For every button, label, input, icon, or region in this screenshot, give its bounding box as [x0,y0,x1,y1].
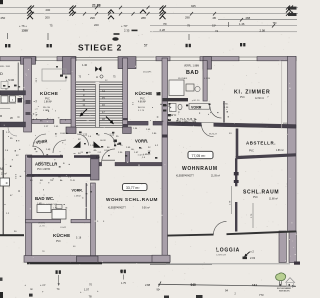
svg-text:8.5.8: 8.5.8 [14,174,16,180]
svg-text:m¹: m¹ [30,288,33,291]
svg-text:90¹: 90¹ [157,289,161,292]
svg-text:75: 75 [187,24,191,28]
svg-text:TB.: TB. [50,180,54,182]
stair treads [76,82,123,125]
vorr + kl.zimmer south wall (sloped) [168,122,297,128]
svg-text:D: D [0,71,3,76]
left black wall line y235 [0,234,24,236]
svg-text:W: W [10,116,13,120]
svg-text:288: 288 [246,16,251,20]
svg-text:KI. ZIMMER: KI. ZIMMER [234,90,271,96]
svg-text:1 M².: 1 M². [37,202,42,205]
svg-text:945: 945 [191,4,196,8]
stair arrow right [106,117,114,125]
corridor extra density [77,134,89,146]
svg-text:11.88 m²: 11.88 m² [269,198,278,201]
level pair left [56,270,58,274]
svg-text:-95-: -95- [93,150,97,152]
svg-text:PVC: PVC [249,151,254,153]
top-left kueche specks [60,75,63,77]
kueche upper-left bottom wall [32,119,54,123]
svg-text:94: 94 [225,289,228,293]
wall kueche/wohn lower-left [91,183,96,256]
right dimension line 5 [150,31,297,33]
corridor extra marks [46,128,159,157]
svg-text:1.86 m²: 1.86 m² [276,149,284,152]
stair tread numbers right flight [102,90,105,121]
kueche-mid bottom wall [128,121,149,125]
right dimension line 4 [150,25,297,27]
svg-text:. 44 .10: . 44 .10 [192,100,200,102]
tick marks row2 [28,12,294,16]
svg-text:78: 78 [89,295,93,298]
vorr mid [189,104,210,110]
svg-text:5T: 5T [144,44,148,48]
right arrow blobs [288,7,297,10]
kl zimmer [234,90,271,101]
stair right wall [123,58,128,128]
svg-text:L.0942: L.0942 [74,196,81,198]
corner artifacts [0,0,3,4]
stair left wall [71,58,76,128]
stair arrow left [80,109,87,116]
svg-text:298: 298 [185,16,190,20]
bad mid [178,66,210,81]
svg-text:PVC 1.98 M²: PVC 1.98 M² [37,168,50,171]
svg-text:23 m²: 23 m² [1,173,7,176]
abstellr-left bottom wall [27,174,91,177]
loggia door arc [214,221,227,234]
corridor door arc near stairs [104,134,115,145]
svg-text:250: 250 [1,16,6,20]
svg-text:1.40: 1.40 [82,63,88,67]
left boundary vline [2,130,4,235]
left apartment wall upper [24,58,32,132]
svg-text:1.46: 1.46 [239,22,245,26]
svg-text:AU.DH: AU.DH [138,106,145,109]
svg-text:C.97/0 LH: C.97/0 LH [216,255,226,257]
svg-text:PVC: PVC [140,98,145,100]
svg-text:LOGGIA: LOGGIA [216,248,240,254]
svg-text:2.8¹: 2.8¹ [98,151,102,154]
bad/kz divider wall [203,61,207,102]
stair top landing faint line [76,81,123,83]
svg-text:VERFL. 1.88M: VERFL. 1.88M [184,66,199,68]
stair well verticals [95,85,97,128]
svg-text:≠ 1.70: ≠ 1.70 [138,109,145,112]
svg-text:200: 200 [45,16,50,20]
vorr-mid specks [163,103,211,112]
dark dashes [132,30,138,32]
svg-text:AL.: AL. [60,179,64,182]
svg-text:2.03: 2.03 [250,256,256,260]
svg-text:PVC: PVC [45,98,50,100]
bottom exterior wall [24,256,170,263]
wohnraum [176,166,220,178]
svg-text:76¹: 76¹ [163,22,167,26]
kueche upper-left fixture [42,69,66,81]
level mark pairs y45 [5,43,245,47]
left edge wall y122 [0,122,26,127]
top exterior wall piers [0,57,36,61]
house [286,278,296,283]
svg-text:4.50M: 4.50M [204,78,210,80]
svg-text:+1.70: +1.70 [39,226,45,228]
svg-text:74: 74 [215,29,219,33]
entry door flags [73,141,81,148]
kl zimmer inner face line [281,61,283,129]
pier at vorr lower-left [91,155,100,180]
stair tread numbers left flight [82,89,85,107]
area box 33.77 [123,184,148,191]
left white label box [0,178,10,186]
corridor tiny marks [40,121,151,155]
top dimension line 1 [0,6,298,8]
svg-text:KLEBEPARKETT: KLEBEPARKETT [108,207,126,210]
svg-text:2.88: 2.88 [145,283,151,287]
tree crown [276,273,286,281]
svg-text:SCHL.RAUM: SCHL.RAUM [243,190,279,196]
bad fixtures [169,80,184,96]
bad bottom wall [163,98,189,101]
svg-text:298: 298 [90,16,95,20]
long center wall x162 [162,58,168,256]
loggia vertical dim [252,203,254,228]
numbers row y31 [22,28,266,33]
numbers row y25 [19,21,277,28]
svg-text:KÜCHE: KÜCHE [40,90,58,96]
schlraum [243,190,279,201]
svg-text:L.094,2: L.094,2 [143,154,151,156]
loggia top boundary [168,235,214,236]
svg-text:TL.B: TL.B [70,180,75,182]
bad wc fixtures [37,205,51,213]
svg-text:WOHN SCHL.RAUM: WOHN SCHL.RAUM [106,197,158,202]
svg-text:2B: 2B [213,16,217,20]
svg-text:MFL. 35M: MFL. 35M [0,66,10,68]
svg-text:21,09 m²: 21,09 m² [211,175,220,178]
wohn-schlraum top wall (lower-left apt) [99,162,102,166]
stair bottom landing line [76,126,123,128]
kl.zimmer door arc [201,125,213,137]
abstellr-right left wall [236,129,239,158]
svg-text:KÜCHE: KÜCHE [53,232,70,238]
svg-text:PVC: PVC [253,197,258,199]
svg-text:W C: W C [171,113,178,117]
top dimension line 2 [0,13,298,15]
svg-text:5. 18: 5. 18 [76,238,82,240]
top wall window lines [36,57,257,60]
svg-text:288: 288 [141,16,146,20]
svg-text:W.02/A.R: W.02/A.R [178,77,188,80]
svg-text:220: 220 [94,23,99,27]
svg-text:ABSTELLR.: ABSTELLR. [246,141,276,146]
left column interior lines [0,96,25,137]
left edge fixtures [1,96,8,103]
bottom right dimension line [158,284,296,286]
svg-text:+ m⁰: + m⁰ [40,283,46,287]
svg-text:W.26,27: W.26,27 [209,134,218,136]
svg-text:ZULÜFT.: ZULÜFT. [143,71,152,74]
left apartment wall lower [26,155,32,259]
chevron ticks [27,9,292,19]
svg-text:B2.: B2. [40,180,44,182]
badwc-left small marks [56,205,62,209]
vertical witness dashes [8,22,229,40]
svg-text:STIEGE 2: STIEGE 2 [78,43,122,53]
loggia right wall bars [279,231,286,263]
svg-text:940: 940 [191,283,197,287]
svg-text:1.75: 1.75 [121,282,126,285]
svg-text:VENTL: VENTL [38,222,46,224]
right dimension line 3 [218,19,297,21]
svg-text:12.60 m²: 12.60 m² [255,97,264,100]
svg-text:2.70: 2.70 [251,213,253,218]
level pair mid [121,270,123,274]
tree trunk [278,281,280,285]
svg-text:O.GL.AL: O.GL.AL [60,132,69,135]
svg-text:2.28: 2.28 [160,28,166,32]
svg-text:WOHNRAUM: WOHNRAUM [182,166,218,172]
svg-text:4.66 M²: 4.66 M² [138,101,146,104]
bottom edge specks [164,296,169,298]
numbers row y17 [1,4,251,20]
svg-text:77,05 m²: 77,05 m² [192,154,207,158]
svg-text:2.98: 2.98 [260,29,266,33]
badwc-left bottom wall [26,219,61,222]
area box 77.05 [188,151,213,158]
corridor door arcs [33,134,46,147]
loggia dim glyphs [243,250,256,260]
abstellr right [246,141,284,153]
svg-text:MS1: MS1 [283,123,288,125]
left column speck row [3,85,20,88]
svg-text:m 2: m 2 [250,250,255,254]
right exterior wall [288,56,297,231]
extra ticks line2 [83,6,275,28]
svg-text:21.88: 21.88 [92,3,101,7]
svg-text:+ 76 +: + 76 + [19,24,27,28]
svg-text:KÜCHE: KÜCHE [135,90,152,96]
kueche upper-left [40,90,58,112]
svg-text:ABSTELLR: ABSTELLR [35,162,57,167]
svg-text:BAD WC.: BAD WC. [35,196,54,201]
svg-text:VORR.: VORR. [72,189,83,193]
svg-text:1.07: 1.07 [84,288,90,292]
svg-text:141: 141 [252,283,257,287]
svg-text:VORR.: VORR. [135,139,148,144]
wohnraum/schlraum divider [235,158,237,186]
svg-text:BAD: BAD [186,70,199,76]
kueche mid [135,90,161,112]
svg-text:1358: 1358 [22,29,29,33]
abstellr-left interior marks [30,163,75,182]
svg-text:O.94: O.94 [104,150,110,152]
abstellr-left top wall [27,155,63,158]
svg-text:PVC: PVC [56,241,61,243]
svg-text:O.ML: O.ML [223,104,229,106]
left edge wall y91 [0,91,26,95]
svg-text:9.56 m²: 9.56 m² [142,207,150,210]
svg-text:33,77 m²: 33,77 m² [126,186,140,190]
svg-text:PVC: PVC [240,97,245,99]
svg-text:78.: 78. [58,177,61,179]
loggia bottom line [150,263,212,265]
svg-text:1.86 M²: 1.86 M² [44,101,52,104]
svg-text:RU.OH: RU.OH [43,107,50,109]
tick marks row1 [28,6,294,10]
svg-text:15¹: 15¹ [212,24,216,28]
left bottom small texts [25,283,151,295]
svg-text:IMMOBILIEN: IMMOBILIEN [279,290,290,292]
svg-text:VORR: VORR [191,106,202,110]
svg-text:+ 70°: + 70° [121,24,128,28]
svg-text:200: 200 [46,8,51,12]
svg-text:O.042: O.042 [60,227,67,229]
svg-text:KLEBEPARKETT: KLEBEPARKETT [176,175,194,178]
abstellr-right bottom wall [236,153,296,159]
svg-text:773: 773 [259,293,264,297]
svg-text:M: M [0,167,3,171]
svg-text:GL.W: GL.W [100,140,107,142]
